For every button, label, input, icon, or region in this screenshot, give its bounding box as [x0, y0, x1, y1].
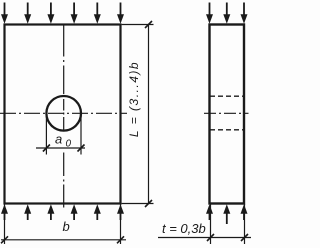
svg-text:b: b [63, 219, 70, 234]
svg-text:0: 0 [66, 139, 72, 150]
svg-text:L = (3...4)b: L = (3...4)b [127, 61, 141, 137]
svg-text:a: a [55, 132, 62, 147]
svg-text:t = 0,3b: t = 0,3b [162, 221, 206, 236]
